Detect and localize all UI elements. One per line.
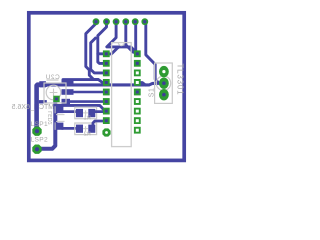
- resistor R2 silkscreen: [75, 123, 97, 135]
- wire B2b: branch to pad L3: [91, 38, 104, 73]
- svg-text:LSP2: LSP2: [31, 137, 48, 144]
- wire LSP2 net: right, up vertical x55.3 to trimmer pad: [39, 98, 55, 149]
- trimmer cross: [50, 89, 58, 97]
- R1 cross: [83, 110, 88, 115]
- wire rail y79.6 from blob1: [63, 78, 98, 81]
- wire R2 right to octagon pad: [93, 121, 104, 127]
- pad LSP2: [32, 145, 41, 154]
- IC notch: [118, 43, 124, 46]
- wire P5 down into pad R1: [135, 23, 137, 53]
- IC left pads L1-L8: [103, 50, 110, 124]
- wire blob3 to pad L6: [69, 100, 104, 103]
- pad blob near corner: [39, 81, 46, 87]
- text C2U mirrored: [45, 74, 59, 81]
- wire B1: P1 down, to y79.5 rail, into pad L4: [86, 23, 103, 83]
- pad blob row2: [62, 89, 74, 95]
- wire riser pad L1 to plateau: [107, 47, 119, 54]
- svg-text:LED2: LED2: [48, 111, 54, 125]
- R2 cross: [83, 126, 88, 131]
- wire LSP1 net thick: corner + vertical to LSP1: [37, 85, 46, 132]
- svg-text:R1: R1: [84, 116, 91, 122]
- text SMTCN_6X6.5 mirrored bottom silkscreen: [12, 104, 59, 111]
- switch S1 silkscreen: [155, 63, 173, 103]
- wire IC pad R4 stub to cross trace: [137, 83, 146, 86]
- resistor R1 silkscreen: [75, 107, 97, 119]
- trimmer C2 silkscreen box: [44, 83, 66, 103]
- S1 pads: [159, 66, 169, 101]
- wire LED2 bottom to R2: [62, 127, 77, 130]
- wire LED2 top to R1: [62, 110, 77, 113]
- svg-text:TL3301: TL3301: [176, 64, 185, 96]
- wire R1 right to pad L7: [95, 110, 105, 113]
- text R2 mirrored: [84, 131, 91, 137]
- wire branch y105.4 to IC pad L7: [55, 105, 104, 110]
- IC right pads R1-R9: [134, 50, 141, 133]
- wire blob2 to pad L5: [72, 91, 104, 94]
- top pads P1-P6: [93, 18, 149, 25]
- LED2 pad bottom: [56, 123, 64, 130]
- pad blob row1: [62, 80, 74, 86]
- IC octagon pad bottom-left: [102, 128, 110, 136]
- trimmer green pad: [53, 96, 59, 102]
- R1 pads: [76, 109, 83, 117]
- IC silkscreen body: [112, 43, 132, 147]
- R2 pads: [76, 125, 83, 133]
- pad LSP1: [32, 127, 41, 136]
- wire P4 down then diagonal to pad R1: [126, 23, 137, 54]
- LED2 silkscreen: [55, 106, 64, 130]
- svg-text:R2: R2: [84, 131, 91, 137]
- trimmer circle: [46, 85, 61, 100]
- svg-text:S1: S1: [149, 88, 156, 98]
- text LED2 mirrored rotated: [48, 111, 54, 125]
- wire B4: P3 long diagonal to plateau y46.9 then down to pad R1: [107, 23, 138, 54]
- pad blob row3: [62, 99, 71, 105]
- text R1 mirrored: [84, 116, 91, 122]
- LED2 pad top: [56, 106, 64, 113]
- wire B2: P2 down to pad L2, with stub to L1: [98, 23, 107, 64]
- pad bar left of trimmer bottom: [39, 100, 47, 103]
- board outline: [29, 13, 184, 161]
- wire P6 down, jog right, into S1 pad2: [145, 23, 159, 84]
- wire cross trace to S1 pad2: [44, 83, 160, 85]
